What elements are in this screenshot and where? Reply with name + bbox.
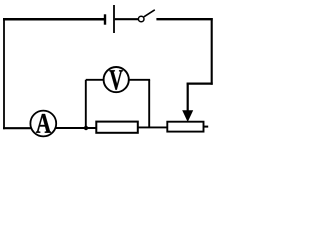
wire: top-left horizontal (corner to battery)	[3, 18, 104, 21]
wire: voltmeter right stub	[129, 79, 151, 81]
battery cell: long plate (positive)	[113, 5, 115, 33]
wire: voltmeter left vertical drop	[85, 80, 87, 128]
wire: switch to top-right corner	[156, 18, 212, 20]
voltmeter V: letter	[109, 70, 122, 90]
wire: rheostat right stub	[204, 126, 209, 128]
wire: voltmeter right vertical drop	[148, 80, 150, 128]
junction dot	[84, 126, 88, 130]
rheostat wiper arrowhead	[182, 110, 193, 122]
switch: pivot circle	[138, 16, 144, 22]
wire: voltmeter left stub	[86, 79, 104, 81]
rheostat body rectangle	[167, 122, 203, 132]
wire: ammeter to resistor	[56, 127, 97, 129]
battery cell: short plate (negative)	[104, 14, 106, 24]
wire: battery to switch	[115, 18, 139, 20]
resistor body rectangle	[96, 122, 138, 133]
ammeter A: letter	[36, 114, 51, 133]
wire: vertical down to wiper arrow	[187, 83, 189, 112]
wire: bottom-left corner to ammeter	[3, 127, 31, 129]
wire: resistor to rheostat	[138, 126, 168, 128]
switch: open blade	[144, 10, 155, 17]
ammeter A: circle	[30, 111, 56, 137]
wire: right vertical	[211, 18, 213, 85]
voltmeter V: circle	[104, 67, 129, 92]
wire: left vertical	[3, 18, 5, 129]
wire: jog horizontal (right side)	[187, 82, 213, 84]
